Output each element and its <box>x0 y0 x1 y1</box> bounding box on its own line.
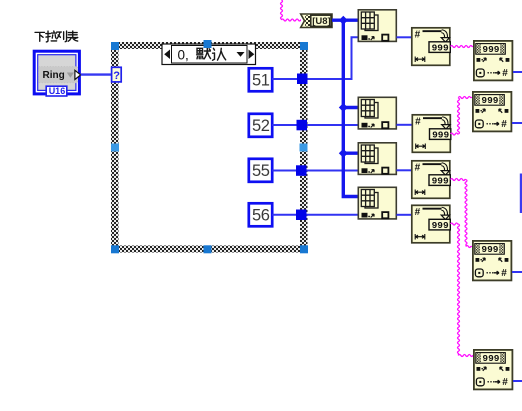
svg-text:999: 999 <box>482 44 499 55</box>
wire index array 2 to Number To Decimal String 2 <box>397 124 413 126</box>
function Number To Decimal String 2 <box>412 115 451 153</box>
wire Ring output to case selector terminal <box>81 73 112 75</box>
function Decimal String To Number 4 <box>474 350 513 390</box>
wire 55 to tunnel <box>272 170 296 172</box>
svg-text:?: ? <box>113 70 120 82</box>
junction on array wire at index array 1 <box>339 16 348 25</box>
string wire N2DS3 to DS2N3 <box>451 179 473 248</box>
tunnel 55 <box>296 165 307 176</box>
tunnel 51 <box>297 74 308 85</box>
case structure border (selected, marching-ants) <box>111 42 308 253</box>
function Decimal String To Number 3 <box>473 241 512 281</box>
selection handle mid-right <box>300 144 308 152</box>
selection handle bottom-left <box>111 245 119 253</box>
function Number To Decimal String 1 <box>412 28 451 66</box>
wire DS2N1 output <box>513 71 522 73</box>
svg-text:999: 999 <box>482 353 499 364</box>
array wire [U8] to index arrays (thick) with junctions <box>332 20 358 196</box>
vertical wire at right edge <box>520 174 522 214</box>
function Index Array 2 <box>358 97 396 129</box>
numeric constant 52 <box>249 114 272 137</box>
control Ring 下拉列表 (U16) <box>33 50 81 97</box>
case selector label "0, 默认" <box>162 44 256 65</box>
svg-text:999: 999 <box>481 95 498 106</box>
wire 52 to tunnel <box>272 124 297 126</box>
svg-text:#: # <box>502 68 508 79</box>
svg-text:#: # <box>415 207 421 218</box>
selection handle bottom-mid <box>204 245 212 253</box>
wire tunnel 55 to index array 3 <box>307 170 359 172</box>
junction on array wire at index array 2 <box>339 103 348 112</box>
svg-text:#: # <box>501 119 507 130</box>
svg-text:#: # <box>502 377 508 388</box>
selection handle top-mid <box>204 40 212 48</box>
numeric constant 55 <box>249 159 272 182</box>
wire tunnel 56 to index array 4 <box>307 214 359 216</box>
svg-text:U16: U16 <box>49 86 66 96</box>
wire tunnel 51 to index array 1 <box>308 37 359 79</box>
svg-text:#: # <box>415 162 421 173</box>
string wire from top into String-To-Byte-Array <box>281 0 301 21</box>
junction on array wire at index array 3 <box>339 149 348 158</box>
svg-text:#: # <box>501 268 507 279</box>
svg-text:0,: 0, <box>178 47 189 62</box>
case selector terminal ? <box>112 67 122 82</box>
function Index Array 1 <box>358 10 396 42</box>
svg-text:#: # <box>415 29 421 40</box>
wire DS2N2 output <box>512 122 522 124</box>
function Number To Decimal String 4 <box>412 205 451 243</box>
svg-text:999: 999 <box>432 220 449 231</box>
string wire N2DS2 to DS2N2 <box>451 97 472 136</box>
wire tunnel 52 to index array 2 <box>307 124 358 126</box>
wire 51 to tunnel <box>272 78 297 80</box>
numeric constant 56 <box>249 203 272 226</box>
numeric constant 51 <box>249 68 272 91</box>
selection handle top-left <box>111 42 119 50</box>
svg-text:999: 999 <box>432 175 449 186</box>
tunnel 52 <box>297 120 308 131</box>
string wire N2DS4 to DS2N4 <box>451 223 473 357</box>
svg-text:999: 999 <box>481 244 498 255</box>
selection handle bottom-right <box>300 245 308 253</box>
string wire N2DS1 to DS2N1 <box>451 46 473 48</box>
svg-text:55: 55 <box>252 162 270 180</box>
wire DS2N3 output <box>512 271 522 273</box>
svg-text:#: # <box>415 116 421 127</box>
svg-text:Ring: Ring <box>43 70 65 81</box>
svg-text:52: 52 <box>252 117 270 135</box>
function Number To Decimal String 3 <box>412 161 451 199</box>
function Index Array 4 <box>358 187 396 219</box>
tunnel 56 <box>296 210 307 221</box>
selection handle top-right <box>300 42 308 50</box>
svg-text:999: 999 <box>432 42 449 53</box>
svg-text:56: 56 <box>252 207 270 225</box>
svg-text:999: 999 <box>432 129 449 140</box>
wire index array 1 to Number To Decimal String 1 <box>397 36 412 38</box>
selection handle mid-left <box>111 144 119 152</box>
wire index array 3 to Number To Decimal String 3 <box>397 169 412 171</box>
node String To Byte Array [U8] <box>301 14 332 28</box>
wire index array 4 to Number To Decimal String 4 <box>397 214 412 216</box>
svg-text:[U8]: [U8] <box>312 16 330 27</box>
wire 56 to tunnel <box>272 214 296 216</box>
svg-text:51: 51 <box>252 72 270 90</box>
function Decimal String To Number 2 <box>473 92 512 131</box>
wire DS2N4 output <box>513 380 522 382</box>
function Index Array 3 <box>358 143 396 175</box>
label 下拉列表 <box>35 31 78 42</box>
function Decimal String To Number 1 <box>474 41 513 81</box>
